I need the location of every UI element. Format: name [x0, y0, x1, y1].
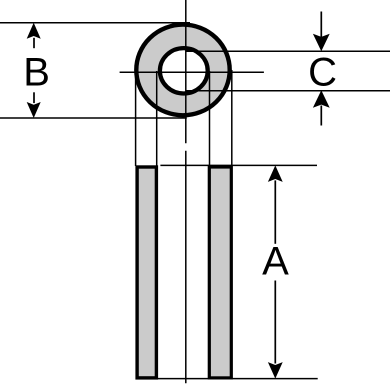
arrow A down [268, 362, 283, 379]
wire: extension line B bottom [0, 117, 187, 119]
wire: extension line C top [186, 50, 390, 52]
wire: horizontal centerline [120, 71, 264, 73]
wire: left outer connector line [135, 70, 137, 166]
arrow B down [27, 102, 41, 118]
wire: right inner connector line [209, 71, 211, 167]
arrow C up [313, 90, 330, 107]
ring inner hole [160, 48, 208, 93]
wire: vertical centerline upper segment [185, 0, 187, 143]
arrow C down [313, 34, 330, 51]
wire: left inner connector line [156, 71, 158, 166]
dimension C line lower stem [320, 106, 322, 126]
wire: extension line A bottom [136, 378, 318, 380]
dimension C line upper stem [320, 12, 322, 38]
dimension A line lower stem [274, 281, 276, 364]
dimension B line lower stem [33, 92, 35, 103]
right leg [209, 167, 231, 378]
wire: extension line B top [0, 22, 190, 24]
wire: vertical centerline lower segment [185, 151, 187, 383]
ring outer circle [136, 25, 229, 116]
svg-text:B: B [23, 51, 50, 95]
left leg [137, 167, 156, 378]
svg-text:C: C [308, 51, 337, 95]
wire: right outer connector line [231, 70, 233, 167]
dimension A line upper stem [274, 180, 276, 243]
wire: extension line A top [160, 164, 317, 166]
dimension B line upper stem [33, 38, 35, 48]
svg-text:A: A [262, 240, 289, 284]
arrow A up [268, 165, 283, 182]
arrow B up [27, 23, 41, 39]
wire: extension line C bottom [187, 90, 391, 92]
